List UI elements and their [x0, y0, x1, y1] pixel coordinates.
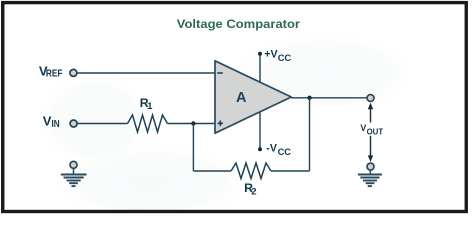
svg-text:CC: CC	[278, 147, 291, 158]
arrow up toward VOUT terminal	[368, 103, 373, 123]
power supply rail line (+VCC to -VCC)	[259, 54, 261, 149]
wire VIN to R1	[78, 123, 128, 125]
terminal VOUT top	[367, 95, 374, 102]
label R2	[244, 181, 257, 197]
svg-text:2: 2	[251, 187, 256, 198]
svg-text:-V: -V	[266, 143, 277, 155]
junction node at output	[307, 96, 311, 100]
wire VREF to op-amp inverting input	[77, 72, 215, 74]
terminal VREF	[70, 69, 77, 76]
svg-text:OUT: OUT	[367, 127, 384, 136]
terminal at left ground	[70, 161, 77, 168]
ground (right, below VOUT)	[358, 170, 382, 186]
op-amp A body	[215, 61, 291, 133]
non-inverting input marker +	[218, 121, 223, 127]
svg-text:IN: IN	[52, 119, 60, 130]
power dot -VCC	[258, 147, 262, 151]
label VIN	[43, 114, 60, 131]
svg-text:Voltage Comparator: Voltage Comparator	[177, 19, 301, 31]
wire output junction down to R2	[309, 98, 311, 171]
arrow down toward ground terminal	[368, 136, 373, 162]
wire bottom left (junction to R2)	[193, 170, 231, 172]
label VOUT	[360, 123, 383, 136]
ground (left, floating reference)	[61, 168, 87, 186]
inverting input marker -	[217, 72, 223, 74]
power dot +VCC	[258, 52, 262, 56]
wire junction down to R2	[192, 124, 194, 172]
wire R1 to op-amp non-inverting input	[168, 123, 216, 125]
label VREF	[39, 63, 63, 79]
svg-text:A: A	[236, 90, 247, 106]
resistor R2	[231, 163, 271, 179]
wire op-amp output to VOUT terminal	[291, 97, 366, 99]
terminal VIN	[70, 120, 77, 127]
svg-text:V: V	[43, 114, 52, 129]
wire R2 to output riser	[271, 170, 310, 172]
junction node at R1 output	[191, 121, 195, 125]
resistor R1	[128, 115, 168, 132]
svg-text:V: V	[360, 123, 366, 133]
svg-text:+V: +V	[264, 49, 277, 61]
label R1	[140, 96, 153, 112]
svg-text:REF: REF	[46, 68, 63, 79]
svg-text:CC: CC	[278, 53, 292, 64]
label +VCC	[264, 49, 291, 64]
label -VCC	[266, 143, 291, 158]
svg-text:1: 1	[147, 101, 153, 112]
terminal VOUT bottom	[367, 163, 374, 170]
